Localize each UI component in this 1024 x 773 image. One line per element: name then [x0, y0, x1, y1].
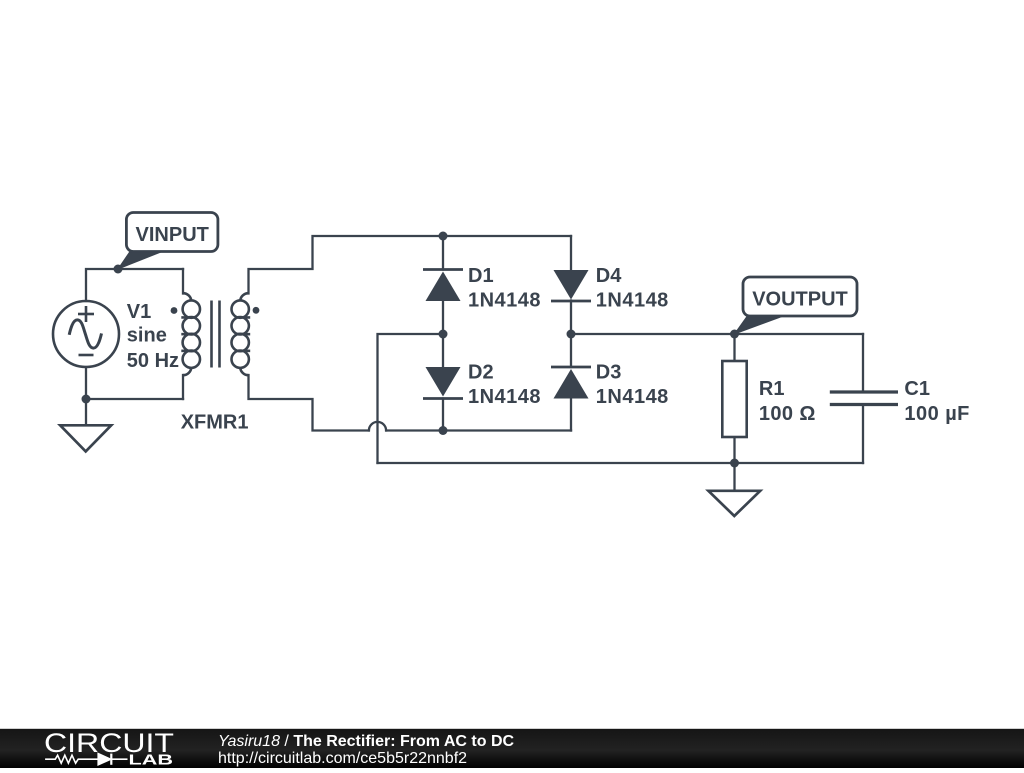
wire bottom from source to transformer primary — [86, 367, 183, 399]
polarity dot primary — [171, 307, 178, 314]
wire primary stubs — [182, 269, 184, 294]
wire top from source to transformer primary — [86, 269, 183, 301]
node bridge bottom junction — [439, 426, 448, 435]
wire D3 branch — [570, 334, 572, 367]
svg-text:1N4148: 1N4148 — [596, 289, 669, 311]
resistor R1 — [722, 361, 746, 437]
node bridge mid-left junction — [439, 330, 448, 339]
diode D3 — [551, 367, 591, 399]
node left ground junction — [82, 395, 91, 404]
svg-text:1N4148: 1N4148 — [468, 386, 541, 408]
wire mid-left node to bottom rail — [378, 334, 444, 463]
svg-text:D3: D3 — [596, 362, 622, 384]
svg-text:100 Ω: 100 Ω — [759, 403, 816, 425]
wire R1 bottom stub — [733, 437, 735, 463]
wire D4 branch — [570, 236, 572, 270]
node VOUTPUT junction — [730, 330, 739, 339]
diode D4 — [551, 270, 591, 301]
svg-text:1N4148: 1N4148 — [468, 289, 541, 311]
wire bridge bottom rail — [386, 429, 571, 431]
svg-text:Yasiru18 / The Rectifier: From: Yasiru18 / The Rectifier: From AC to DC — [218, 733, 515, 750]
wire ground stub left — [85, 399, 87, 424]
wire D2 branch — [442, 334, 444, 367]
wire hop over vertical — [369, 422, 386, 431]
svg-text:D4: D4 — [596, 265, 622, 287]
svg-text:50 Hz: 50 Hz — [127, 350, 179, 372]
svg-text:http://circuitlab.com/ce5b5r22: http://circuitlab.com/ce5b5r22nnbf2 — [218, 750, 467, 767]
wire ground stub right — [733, 463, 735, 490]
flag VOUTPUT — [735, 277, 858, 334]
svg-text:V1: V1 — [127, 301, 151, 323]
footer bar — [0, 729, 1024, 768]
wire D1 branch — [442, 236, 444, 270]
logo resistor-diode doodle — [45, 754, 127, 765]
node bridge top junction — [439, 232, 448, 241]
node bottom-right junction — [730, 459, 739, 468]
wire bottom long rail — [378, 462, 864, 464]
svg-text:100 µF: 100 µF — [904, 403, 969, 425]
ground left — [60, 425, 111, 451]
secondary coil — [232, 293, 251, 375]
svg-text:D2: D2 — [468, 362, 494, 384]
svg-text:sine: sine — [127, 325, 167, 347]
transformer XFMR1 — [181, 293, 250, 375]
node VINPUT junction — [114, 265, 123, 274]
wire secondary top to bridge — [249, 236, 572, 294]
diode D2 — [423, 367, 463, 399]
svg-text:XFMR1: XFMR1 — [181, 411, 249, 433]
wire R1 top stub — [733, 334, 735, 361]
node bridge mid-right junction — [567, 330, 576, 339]
svg-text:R1: R1 — [759, 378, 785, 400]
svg-text:1N4148: 1N4148 — [596, 386, 669, 408]
voltage source V1 — [53, 301, 119, 367]
wire mid-right output rail — [571, 333, 863, 335]
ground right — [708, 491, 760, 516]
wire C1 top stub — [862, 334, 864, 392]
primary coil — [181, 293, 200, 375]
svg-text:LAB: LAB — [129, 752, 174, 768]
svg-text:VINPUT: VINPUT — [136, 224, 209, 246]
svg-text:C1: C1 — [904, 378, 930, 400]
wire secondary bottom — [249, 375, 369, 431]
svg-text:VOUTPUT: VOUTPUT — [752, 289, 848, 311]
flag VINPUT — [118, 213, 218, 270]
polarity dot secondary — [253, 307, 260, 314]
core lines — [210, 301, 213, 368]
wire C1 bottom stub — [862, 405, 864, 463]
diode D1 — [423, 270, 463, 302]
capacitor C1 — [830, 392, 898, 405]
svg-text:D1: D1 — [468, 265, 494, 287]
